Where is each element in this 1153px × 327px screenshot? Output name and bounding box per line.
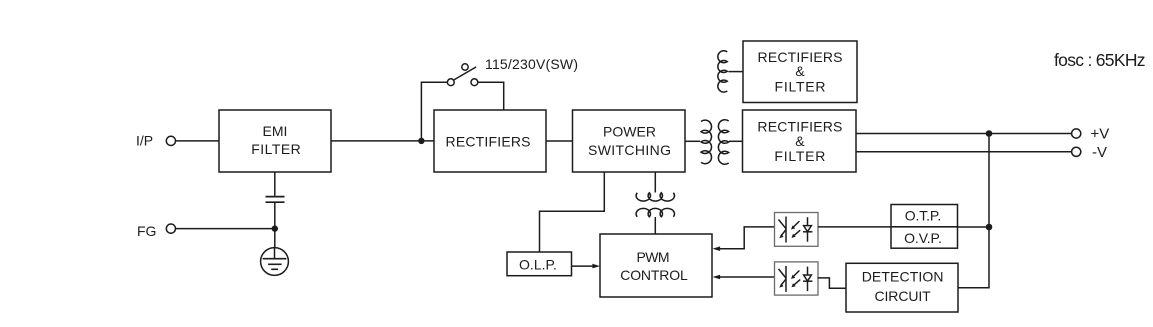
svg-text:CONTROL: CONTROL bbox=[620, 267, 688, 283]
optocoupler U2 LED bbox=[803, 267, 812, 292]
block PWM CONTROL bbox=[600, 234, 712, 297]
block O.T.P. bbox=[891, 205, 958, 227]
transformer T1 primary winding bbox=[701, 120, 712, 164]
svg-text:DETECTION: DETECTION bbox=[862, 269, 944, 285]
wire aux winding to top rectifiers-filter bbox=[729, 71, 744, 73]
protective earth ground symbol bbox=[261, 248, 289, 276]
svg-text:RECTIFIERS: RECTIFIERS bbox=[446, 134, 531, 150]
optocoupler U1 phototransistor bbox=[779, 217, 787, 243]
optocoupler U1 LED bbox=[803, 217, 812, 242]
wire secondary to rectifiers-filter bbox=[729, 140, 743, 142]
block RECTIFIERS bbox=[434, 110, 546, 172]
wire optocoupler2 to detection circuit bbox=[818, 278, 847, 288]
junction dot at switch tap bbox=[418, 138, 424, 144]
svg-text:115/230V(SW): 115/230V(SW) bbox=[485, 56, 578, 72]
wire I/P to EMI filter bbox=[176, 140, 220, 142]
wire rectifiers to power switching bbox=[546, 140, 573, 142]
terminal I/P bbox=[166, 136, 175, 145]
wire feedback winding to PWM bbox=[654, 217, 656, 234]
block O.L.P. bbox=[507, 252, 572, 276]
svg-text:FG: FG bbox=[137, 223, 156, 239]
terminal -V bbox=[1072, 147, 1081, 156]
block EMI FILTER bbox=[219, 110, 331, 172]
svg-text:+V: +V bbox=[1091, 126, 1110, 143]
svg-text:O.T.P.: O.T.P. bbox=[905, 208, 942, 224]
wire OTP/OVP left bbox=[818, 226, 891, 228]
svg-text:&: & bbox=[795, 63, 805, 79]
wire FG to ground junction bbox=[176, 228, 275, 230]
svg-text:EMI: EMI bbox=[263, 123, 288, 139]
wire OTP/OVP right to sense line bbox=[958, 226, 990, 228]
switch SW 115/230V contacts bbox=[447, 64, 477, 86]
wire +V output bbox=[856, 133, 1072, 135]
terminal FG bbox=[166, 224, 175, 233]
transformer T1 secondary winding bbox=[718, 120, 728, 165]
block POWER SWITCHING bbox=[573, 110, 686, 172]
svg-text:fosc : 65KHz: fosc : 65KHz bbox=[1054, 50, 1146, 70]
block DETECTION CIRCUIT bbox=[846, 263, 958, 312]
junction dot on +V line bbox=[986, 130, 993, 137]
wire power switching to feedback winding bbox=[654, 172, 656, 193]
wire OLP to PWM with arrow bbox=[572, 264, 601, 269]
svg-text:FILTER: FILTER bbox=[251, 141, 301, 157]
wire switch left riser bbox=[421, 82, 447, 141]
wire -V output bbox=[856, 151, 1072, 153]
svg-text:PWM: PWM bbox=[637, 249, 670, 265]
transformer T2 feedback lower winding bbox=[636, 208, 674, 216]
svg-text:O.L.P.: O.L.P. bbox=[519, 256, 557, 272]
optocoupler U1 box bbox=[775, 213, 819, 247]
wire feedback line power switching to OLP bbox=[540, 172, 605, 252]
svg-text:SWITCHING: SWITCHING bbox=[588, 142, 671, 158]
junction dot at OVP line bbox=[986, 224, 993, 231]
wire optocoupler1 to PWM with arrow bbox=[713, 227, 775, 251]
optocoupler U1 light arrows bbox=[791, 221, 800, 238]
transformer T2 feedback upper winding bbox=[636, 193, 674, 201]
wire power switching to transformer primary bbox=[685, 140, 700, 142]
svg-text:FILTER: FILTER bbox=[774, 148, 825, 164]
block RECTIFIERS & FILTER (top) bbox=[743, 41, 857, 103]
svg-text:&: & bbox=[795, 133, 805, 149]
junction dot FG/ground bbox=[272, 225, 278, 231]
terminal +V bbox=[1072, 129, 1081, 138]
wire EMI bottom to capacitor bbox=[274, 172, 276, 196]
block O.V.P. bbox=[891, 227, 958, 248]
svg-text:POWER: POWER bbox=[603, 123, 656, 139]
block RECTIFIERS & FILTER (main) bbox=[743, 110, 857, 172]
wire sense line from +V junction down bbox=[958, 134, 989, 288]
optocoupler U2 phototransistor bbox=[779, 266, 787, 292]
transformer T1 auxiliary winding bbox=[718, 51, 727, 92]
svg-text:FILTER: FILTER bbox=[775, 78, 826, 94]
svg-text:O.V.P.: O.V.P. bbox=[904, 230, 942, 246]
svg-text:-V: -V bbox=[1092, 144, 1107, 161]
svg-text:CIRCUIT: CIRCUIT bbox=[875, 288, 932, 304]
capacitor C1 bbox=[266, 197, 285, 203]
svg-text:I/P: I/P bbox=[136, 133, 153, 149]
wire optocoupler2 to PWM with arrow bbox=[713, 275, 775, 280]
optocoupler U2 box bbox=[775, 262, 819, 295]
wire switch to rectifiers top bbox=[478, 82, 504, 110]
optocoupler U2 light arrows bbox=[791, 271, 800, 288]
wire EMI to rectifiers bbox=[331, 140, 434, 142]
wire capacitor to ground bbox=[274, 203, 276, 248]
